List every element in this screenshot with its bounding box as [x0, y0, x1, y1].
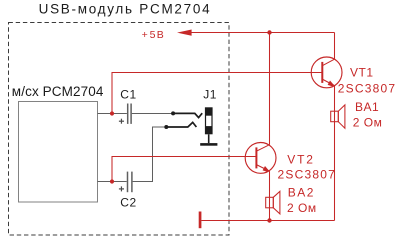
svg-text:2 Ом: 2 Ом [353, 116, 383, 130]
svg-text:C1: C1 [120, 88, 136, 102]
svg-text:J1: J1 [203, 88, 217, 102]
svg-text:VT2: VT2 [287, 153, 314, 167]
svg-text:2SC3807: 2SC3807 [278, 168, 336, 182]
svg-text:+5В: +5В [142, 29, 164, 41]
svg-text:USB-модуль PCM2704: USB-модуль PCM2704 [39, 1, 212, 16]
svg-text:VT1: VT1 [350, 66, 374, 80]
svg-text:2 Ом: 2 Ом [287, 201, 317, 215]
svg-text:BA2: BA2 [288, 186, 315, 200]
svg-text:C2: C2 [120, 195, 136, 209]
svg-text:BA1: BA1 [355, 100, 379, 114]
svg-text:2SC3807: 2SC3807 [338, 82, 396, 96]
svg-text:м/сх PCM2704: м/сх PCM2704 [12, 84, 104, 99]
